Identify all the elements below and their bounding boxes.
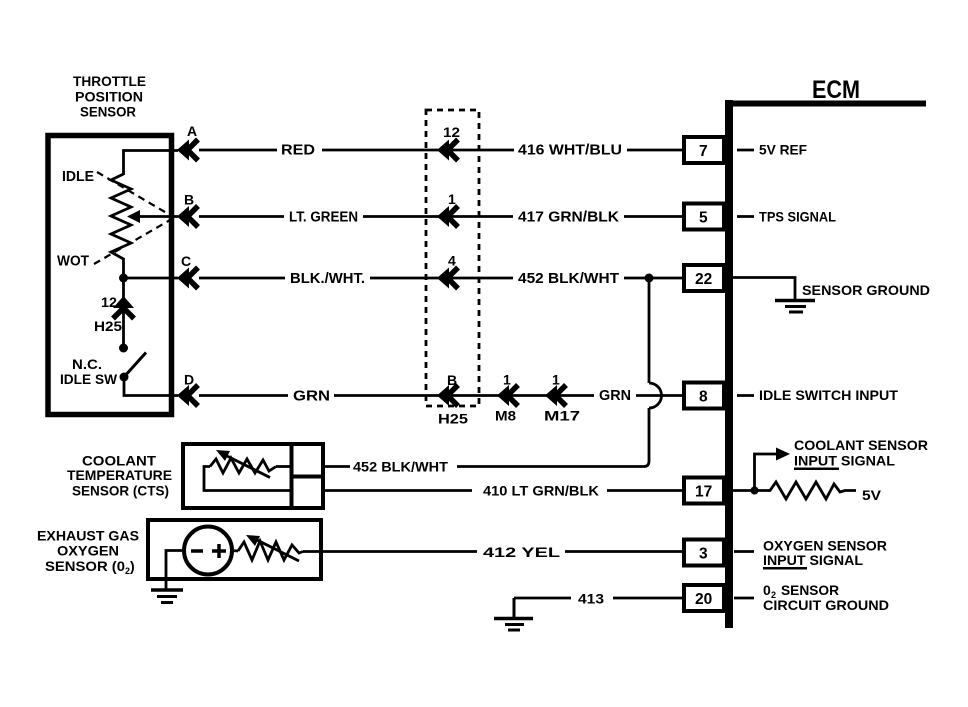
H25 pin B arrow (row D) [437, 372, 458, 406]
dashed wiper travel line (WOT) [94, 220, 170, 264]
ECM pin box 17 [684, 478, 724, 504]
WOT label [57, 254, 89, 270]
svg-text:POSITION: POSITION [75, 90, 143, 105]
wire RED (row A) [199, 143, 683, 159]
CTS thermistor [204, 450, 290, 491]
svg-text:GRN: GRN [293, 389, 330, 405]
svg-text:GRN: GRN [599, 388, 631, 404]
svg-text:416 WHT/BLU: 416 WHT/BLU [518, 143, 622, 159]
SENSOR GROUND wire [733, 278, 930, 300]
ECM pin box 5 [684, 204, 724, 230]
IDLE SWITCH INPUT stub and label [737, 387, 898, 403]
terminal D arrow [177, 372, 198, 407]
svg-text:412 YEL: 412 YEL [483, 544, 561, 560]
svg-text:22: 22 [695, 271, 712, 288]
terminal B arrow [177, 192, 198, 228]
svg-text:1: 1 [503, 372, 511, 388]
IDLE label [62, 169, 94, 185]
EGO case ground wire [166, 551, 184, 590]
svg-text:LT. GREEN: LT. GREEN [289, 210, 358, 226]
5V REF stub and label [737, 142, 807, 158]
svg-text:M17: M17 [544, 408, 580, 424]
svg-text:SENSOR: SENSOR [80, 105, 136, 120]
OXYGEN SENSOR INPUT SIGNAL stub and label [734, 538, 887, 570]
wire BLK./WHT. (row C) [199, 271, 683, 287]
svg-text:1: 1 [448, 191, 456, 207]
svg-text:7: 7 [699, 143, 708, 160]
svg-text:417 GRN/BLK: 417 GRN/BLK [518, 210, 620, 226]
N.C. idle switch [60, 344, 146, 388]
svg-text:A: A [187, 123, 197, 139]
ECM pin box 22 [684, 265, 724, 291]
node: pot low end / terminal C junction [119, 274, 128, 283]
svg-text:SENSOR (CTS): SENSOR (CTS) [72, 483, 169, 499]
svg-text:INPUT SIGNAL: INPUT SIGNAL [794, 453, 895, 469]
svg-text:452 BLK/WHT: 452 BLK/WHT [353, 459, 448, 475]
svg-text:5V: 5V [862, 487, 882, 503]
connector H25 dashed outline [426, 110, 479, 427]
H25 pin 4 arrow (row C) [437, 253, 458, 289]
wire LT. GREEN (row B) [199, 210, 683, 226]
svg-text:SENSOR: SENSOR [781, 582, 839, 598]
svg-text:N.C.: N.C. [72, 356, 102, 372]
svg-text:INPUT SIGNAL: INPUT SIGNAL [763, 552, 863, 568]
svg-text:410 LT GRN/BLK: 410 LT GRN/BLK [483, 483, 599, 499]
svg-text:BLK./WHT.: BLK./WHT. [290, 271, 365, 287]
H25 pin 12 arrow (row A) [437, 124, 460, 161]
wire: junction down to CTS (with hop over GRN) [644, 278, 662, 467]
H25 pin 1 arrow (row B) [437, 191, 458, 227]
wire: junction down to idle switch [122, 278, 125, 348]
coolant temperature sensor (CTS) box [183, 444, 323, 508]
inline connector H25 pin 12 (up arrow) [94, 294, 134, 334]
svg-text:): ) [130, 558, 135, 574]
wire: pot high end to terminal A [124, 151, 179, 176]
svg-text:THROTTLE: THROTTLE [73, 74, 146, 89]
svg-text:12: 12 [101, 294, 117, 310]
svg-text:C: C [181, 253, 191, 269]
svg-text:SENSOR (0: SENSOR (0 [45, 558, 125, 574]
terminal A arrow [177, 123, 198, 161]
svg-text:H25: H25 [94, 318, 122, 334]
svg-text:4: 4 [448, 253, 456, 269]
exhaust gas oxygen sensor box [148, 520, 321, 579]
ground symbol (413) [494, 598, 533, 630]
svg-text:TEMPERATURE: TEMPERATURE [67, 467, 172, 483]
svg-text:D: D [184, 372, 194, 388]
wire 452 BLK/WHT (CTS to junction) [323, 459, 645, 475]
svg-text:1: 1 [552, 372, 560, 388]
svg-text:5: 5 [699, 210, 708, 227]
svg-text:IDLE: IDLE [62, 169, 94, 185]
TPS SIGNAL stub and label [737, 209, 836, 225]
svg-text:TPS SIGNAL: TPS SIGNAL [759, 209, 836, 225]
svg-text:H25: H25 [438, 411, 468, 427]
throttle position sensor box [48, 136, 172, 415]
potentiometer R (TPS resistive element) [111, 174, 131, 274]
node: pin 17 junction [733, 487, 759, 495]
wire: junction to terminal C [124, 277, 179, 280]
dashed wiper travel line (IDLE) [97, 172, 170, 215]
ECM label [812, 76, 860, 104]
svg-text:SENSOR GROUND: SENSOR GROUND [802, 282, 930, 298]
ECM pin box 7 [684, 137, 724, 163]
svg-text:0: 0 [763, 582, 771, 598]
svg-text:17: 17 [695, 484, 712, 501]
TPS wiper arrow to terminal B [127, 210, 178, 223]
svg-text:IDLE SW: IDLE SW [60, 371, 118, 387]
svg-text:EXHAUST GAS: EXHAUST GAS [37, 528, 139, 544]
svg-text:ECM: ECM [812, 76, 860, 104]
wire 412 YEL (EGO to pin 3) [303, 544, 683, 560]
node: 452 BLK/WHT junction (row C) [645, 274, 654, 283]
ground symbol (EGO case) [151, 590, 183, 603]
svg-text:20: 20 [695, 591, 712, 608]
svg-text:RED: RED [281, 143, 315, 159]
svg-text:452 BLK/WHT: 452 BLK/WHT [518, 271, 619, 287]
svg-text:OXYGEN: OXYGEN [57, 543, 119, 559]
connector M17 pin 1 arrow [544, 372, 580, 424]
ECM pin box 20 [684, 585, 724, 611]
svg-text:COOLANT SENSOR: COOLANT SENSOR [794, 437, 928, 453]
coolant sensor input signal arrow [755, 437, 929, 491]
wire 410 LT GRN/BLK (CTS to pin 17) [323, 483, 683, 499]
svg-text:CIRCUIT GROUND: CIRCUIT GROUND [763, 597, 889, 613]
svg-text:B: B [184, 192, 194, 208]
svg-text:8: 8 [699, 389, 708, 406]
svg-text:WOT: WOT [57, 254, 89, 270]
EGO internal resistance [232, 535, 303, 561]
svg-text:M8: M8 [495, 408, 516, 424]
EGO voltage source [184, 527, 232, 575]
O2 SENSOR CIRCUIT GROUND stub and label [734, 582, 889, 613]
throttle position sensor label [73, 74, 146, 120]
svg-text:12: 12 [443, 124, 460, 140]
ground symbol (sensor ground) [775, 301, 815, 313]
svg-text:5V REF: 5V REF [759, 142, 807, 158]
ECM pin box 8 [684, 383, 724, 409]
pull-up resistor to 5V [755, 482, 882, 503]
connector M8 pin 1 arrow [495, 372, 518, 424]
ECM module bar [725, 100, 926, 628]
wire 413 (ground to pin 20) [514, 591, 683, 607]
terminal C arrow [177, 253, 198, 289]
ECM pin box 3 [684, 540, 724, 566]
EGO sensor label [37, 528, 139, 577]
svg-text:B: B [447, 372, 457, 388]
svg-text:413: 413 [578, 591, 604, 607]
svg-text:3: 3 [699, 546, 708, 563]
wire GRN (row D) [199, 388, 683, 405]
svg-text:IDLE SWITCH INPUT: IDLE SWITCH INPUT [759, 387, 898, 403]
wire: idle switch to terminal D [124, 377, 178, 396]
CTS label [67, 453, 172, 499]
